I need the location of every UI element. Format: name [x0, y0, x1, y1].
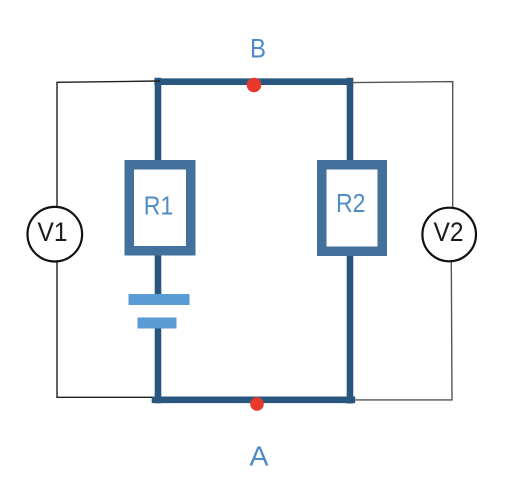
- svg-text:R2: R2: [336, 190, 366, 218]
- svg-text:A: A: [250, 440, 269, 471]
- svg-text:V1: V1: [38, 217, 68, 247]
- svg-text:R1: R1: [144, 193, 174, 221]
- svg-text:B: B: [250, 33, 266, 63]
- svg-text:V2: V2: [434, 217, 464, 247]
